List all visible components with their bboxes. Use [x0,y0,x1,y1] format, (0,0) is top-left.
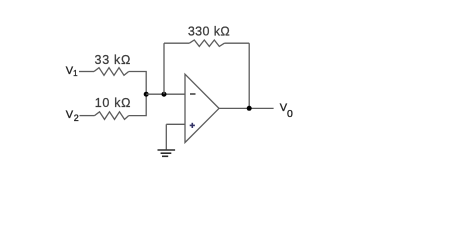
svg-text:V2: V2 [66,109,79,123]
junction node out [247,106,252,111]
resistor 10 kΩ [95,112,129,120]
svg-text:10 kΩ: 10 kΩ [95,96,131,110]
wire [165,124,167,149]
wire [79,71,94,73]
wire [219,107,274,109]
op-amp U1 [185,74,219,142]
junction node A [144,92,149,97]
wire [129,72,147,95]
ground [158,150,176,156]
svg-text:33 kΩ: 33 kΩ [95,53,131,67]
wire [163,43,165,94]
resistor 33 kΩ [94,68,129,76]
wire [164,42,189,44]
wire [80,115,95,117]
wire [248,43,250,108]
resistor 330 kΩ [189,40,224,46]
svg-text:V1: V1 [66,65,78,78]
wire [224,42,249,44]
wire [166,123,185,125]
svg-text:330 kΩ: 330 kΩ [188,24,230,38]
svg-text:V0: V0 [280,102,293,120]
junction node B [162,92,167,97]
wire [146,93,185,95]
wire [129,94,147,115]
